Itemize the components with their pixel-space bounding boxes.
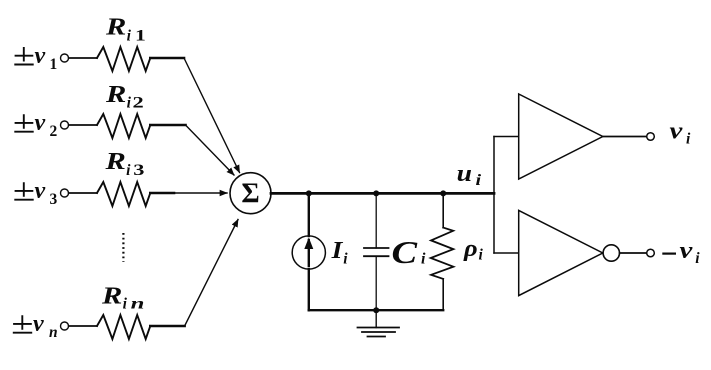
svg-text:v: v xyxy=(33,311,44,337)
svg-text:3: 3 xyxy=(50,191,58,208)
svg-text:ρ: ρ xyxy=(463,236,478,262)
svg-text:n: n xyxy=(131,296,145,312)
svg-text:R: R xyxy=(101,282,122,308)
svg-text:R: R xyxy=(104,148,125,174)
svg-text:2: 2 xyxy=(50,123,58,140)
svg-text:i: i xyxy=(695,250,700,267)
svg-text:R: R xyxy=(105,81,126,107)
svg-text:I: I xyxy=(331,237,344,264)
svg-text:3: 3 xyxy=(133,162,144,179)
svg-text:v: v xyxy=(35,110,46,136)
svg-text:v: v xyxy=(35,43,46,69)
svg-text:i: i xyxy=(476,171,482,188)
svg-text:i: i xyxy=(127,95,132,112)
svg-text:2: 2 xyxy=(133,95,144,112)
svg-text:i: i xyxy=(123,295,128,312)
svg-text:R: R xyxy=(105,13,126,39)
svg-text:v: v xyxy=(670,117,683,144)
svg-text:n: n xyxy=(49,324,58,341)
svg-text:i: i xyxy=(126,162,131,179)
svg-text:1: 1 xyxy=(50,56,58,73)
svg-text:v: v xyxy=(680,236,693,263)
svg-text:i: i xyxy=(127,27,132,44)
svg-text:1: 1 xyxy=(135,27,146,44)
svg-text:i: i xyxy=(479,247,484,264)
svg-text:i: i xyxy=(343,250,348,267)
svg-text:v: v xyxy=(35,178,46,204)
svg-text:C: C xyxy=(392,235,418,270)
svg-text:u: u xyxy=(457,159,472,186)
svg-text:Σ: Σ xyxy=(241,179,259,210)
svg-text:i: i xyxy=(686,131,691,148)
svg-text:i: i xyxy=(421,251,426,268)
